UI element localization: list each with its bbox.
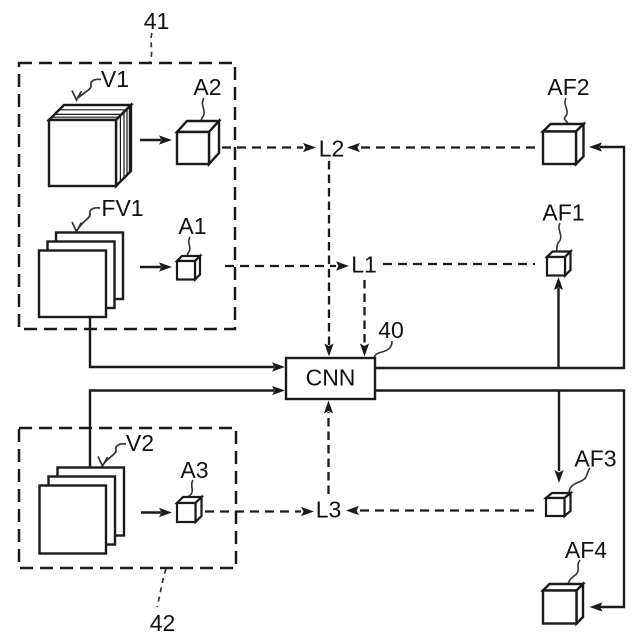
wire CNN to AF2 [375,142,624,368]
svg-text:AF4: AF4 [565,537,607,563]
cube AF2 [543,124,584,164]
arrow V1 to A2 [140,135,172,144]
wire V2 to CNN lower input [90,386,285,468]
svg-text:L2: L2 [319,136,345,162]
cube A1 [177,256,200,280]
leader AF1 [557,223,561,254]
svg-text:CNN: CNN [306,365,356,391]
label 42 [150,610,176,636]
label 41 [144,8,170,34]
svg-text:AF3: AF3 [574,446,616,472]
square stack V2 [40,468,125,554]
dashed box 41 [19,63,235,329]
label FV1 [101,195,143,221]
svg-text:42: 42 [150,610,176,636]
leader A1 [188,237,190,259]
svg-text:A1: A1 [178,213,206,239]
svg-text:A2: A2 [193,74,221,100]
label AF3 [574,446,616,472]
arrow FV1 to A1 [140,262,172,271]
label V1 [101,66,129,92]
wire CNN to AF4 [375,391,624,612]
dashed wire AF2 to L2 [347,143,541,152]
leader AF3 [569,468,591,494]
dashed wire L2 down to CNN [324,161,333,357]
label L2 [319,136,345,162]
dashed wire L1 to AF1 [383,263,535,265]
label AF4 [565,537,607,563]
leader AF4 [568,560,580,584]
svg-text:V2: V2 [126,430,154,456]
dashed wire AF3 to L3 [346,506,540,515]
leader V2 [98,444,126,466]
svg-text:L3: L3 [316,497,342,523]
cube A2 [177,121,219,164]
cube AF1 [547,252,571,276]
arrow V2 to A3 [141,508,172,517]
leader V1 [72,79,101,100]
cube A3 [177,497,202,522]
square stack FV1 [39,233,123,318]
leader 40 [374,341,392,358]
svg-text:V1: V1 [101,66,129,92]
label A1 [178,213,206,239]
dashed wire L3 up to CNN [324,401,333,495]
wire CNN output to AF1 [554,277,563,368]
cube AF4 [543,584,583,624]
dashed wire A3 to L3 [205,507,314,516]
dashed box 42 [19,428,236,568]
cube AF3 [546,493,571,516]
svg-text:40: 40 [378,317,404,343]
svg-text:FV1: FV1 [101,195,143,221]
dashed wire L1 down to CNN [360,280,369,357]
leader A3 [187,480,193,502]
label 40 [378,317,404,343]
leader 42 [157,569,166,607]
label AF1 [542,200,584,226]
svg-text:AF2: AF2 [547,74,589,100]
label A2 [193,74,221,100]
leader AF2 [565,98,569,125]
dashed wire A1 to L1 [225,261,349,270]
label AF2 [547,74,589,100]
wire FV1 to CNN upper input [90,316,285,372]
wire CNN output to AF3 [554,391,563,484]
svg-text:L1: L1 [351,252,377,278]
label L3 [316,497,342,523]
CNN box U40 [286,358,375,399]
label V2 [126,430,154,456]
dashed wire A2 to L2 [222,143,316,152]
leader FV1 [72,208,100,232]
svg-text:A3: A3 [180,457,208,483]
label A3 [180,457,208,483]
label L1 [351,252,377,278]
svg-text:41: 41 [144,8,170,34]
leader 41 [150,33,152,62]
svg-text:AF1: AF1 [542,200,584,226]
label CNN [306,365,356,391]
leader A2 [201,98,204,127]
cube stack V1 [49,105,131,186]
